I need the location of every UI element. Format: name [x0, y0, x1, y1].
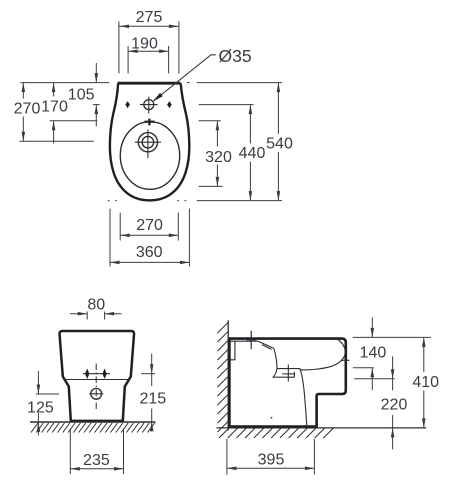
svg-text:215: 215	[139, 390, 166, 407]
drain crosshair	[135, 130, 161, 159]
dim 140 line+arrows	[371, 318, 373, 391]
front fixing line	[83, 373, 110, 375]
svg-text:235: 235	[83, 452, 110, 469]
dim 540 arrows	[277, 83, 281, 93]
dim 190 extension lines	[128, 46, 169, 74]
leader line for Ø35	[154, 55, 216, 101]
dim 275 line	[120, 25, 179, 27]
front fixing star left	[85, 369, 89, 379]
front rim step line	[63, 379, 130, 381]
side bowl front sweep	[300, 339, 345, 370]
side deck line	[230, 340, 258, 342]
dim 270 (left) arrows	[22, 83, 26, 93]
side rim tick	[342, 359, 350, 361]
svg-text:275: 275	[136, 9, 163, 26]
drain circles	[138, 133, 157, 152]
dim 395 arrows	[227, 467, 237, 471]
side speck dot	[270, 417, 272, 419]
svg-text:540: 540	[266, 136, 293, 153]
side back recess	[230, 341, 235, 360]
wall line	[227, 320, 229, 430]
front tap crosshair	[89, 393, 103, 395]
right extension line 140	[353, 367, 374, 369]
dim 220 line+arrows	[392, 356, 394, 449]
leader arrowhead	[153, 93, 163, 102]
front outline	[60, 331, 135, 421]
dim 105 line	[93, 63, 100, 126]
side drain pocket	[273, 369, 300, 378]
dim 320 line	[216, 121, 218, 187]
svg-text:Ø35: Ø35	[219, 46, 252, 66]
right extension line top edge	[353, 336, 431, 338]
dim 270 (bottom) line	[120, 234, 178, 236]
dim 190 arrows	[128, 49, 138, 53]
fixing hole mark right (plan)	[167, 101, 172, 108]
bidet top edge (plan, thick)	[118, 82, 181, 85]
front floor hatching	[31, 423, 155, 433]
side floor hatching	[219, 428, 333, 438]
bottom extension line segments (plan bottom tangent)	[108, 200, 282, 202]
dim 275 arrows	[120, 25, 130, 29]
dim 395 extension lines	[227, 439, 315, 475]
svg-text:125: 125	[27, 399, 54, 416]
dim 360 arrows	[110, 261, 120, 265]
side deck slope double line	[258, 341, 274, 349]
right extension line at tap level	[199, 104, 254, 106]
right extension line at bowl bottom	[199, 185, 223, 187]
dim 540 line	[277, 83, 279, 201]
dim 105 arrows	[95, 73, 99, 83]
right extension line at 320 top	[199, 120, 221, 122]
svg-text:395: 395	[258, 452, 285, 469]
side floor line	[217, 427, 427, 429]
side fixing cross	[246, 331, 256, 350]
side pedestal front inner line	[300, 369, 307, 426]
dim 410 arrows	[422, 337, 426, 347]
dim 270 (left) line	[22, 83, 24, 142]
svg-text:320: 320	[205, 149, 232, 166]
dim 215 tick	[141, 373, 155, 375]
left extension line at drain level	[20, 140, 94, 142]
bowl top + mark	[145, 119, 155, 126]
svg-text:270: 270	[136, 217, 163, 234]
dim 360 line	[110, 261, 189, 263]
dim 320 arrows	[216, 121, 220, 131]
svg-text:410: 410	[412, 374, 439, 391]
svg-text:270: 270	[14, 101, 41, 118]
front centerline	[95, 364, 97, 412]
fixing hole mark left (plan)	[125, 101, 130, 108]
dim 235 arrows	[70, 467, 80, 471]
front fixing star right	[102, 369, 106, 379]
tap hole circle (Ø35)	[144, 100, 154, 110]
right extension line at top edge	[187, 82, 190, 84]
bottom dim vertical extension lines	[110, 209, 189, 267]
inner bowl oval (plan)	[120, 122, 179, 190]
dim 80 ticks	[87, 312, 104, 320]
right extension line 220	[354, 378, 394, 380]
dim 215 line+arrows	[151, 354, 153, 432]
tap hole crosshair	[140, 97, 158, 114]
left extension line at 170 level	[50, 120, 98, 122]
wall hatching	[217, 322, 228, 432]
left extension line at top edge	[21, 82, 110, 84]
svg-text:220: 220	[381, 397, 408, 414]
dim 235 line	[70, 468, 123, 470]
dim 440 line	[249, 105, 251, 201]
dim 235 extension lines	[70, 430, 123, 475]
dim 80 line+arrows	[70, 313, 122, 315]
svg-text:440: 440	[239, 145, 266, 162]
front tap hole	[91, 388, 102, 399]
dim 170 line	[53, 83, 55, 144]
dim 125 tick	[36, 393, 59, 395]
dim 395 line	[227, 467, 315, 469]
side bowl back wall	[273, 348, 277, 377]
side outer outline	[229, 339, 345, 427]
dim 275 extension lines	[119, 22, 179, 74]
svg-text:360: 360	[136, 244, 163, 261]
svg-text:105: 105	[68, 87, 95, 104]
dim 440 arrows	[249, 105, 253, 115]
front floor line	[30, 421, 156, 423]
dim 410 line	[423, 337, 425, 428]
side drain centerline	[282, 365, 294, 382]
svg-text:140: 140	[360, 345, 387, 362]
dim 170 arrows	[52, 83, 56, 93]
dim 190 line	[128, 50, 169, 52]
dim 270 (bottom) arrows	[120, 234, 130, 238]
svg-text:170: 170	[41, 99, 68, 116]
bidet outer outline (plan)	[110, 83, 189, 200]
dim 125 line+arrows	[37, 371, 39, 436]
svg-text:190: 190	[131, 36, 158, 53]
svg-text:80: 80	[87, 297, 105, 314]
